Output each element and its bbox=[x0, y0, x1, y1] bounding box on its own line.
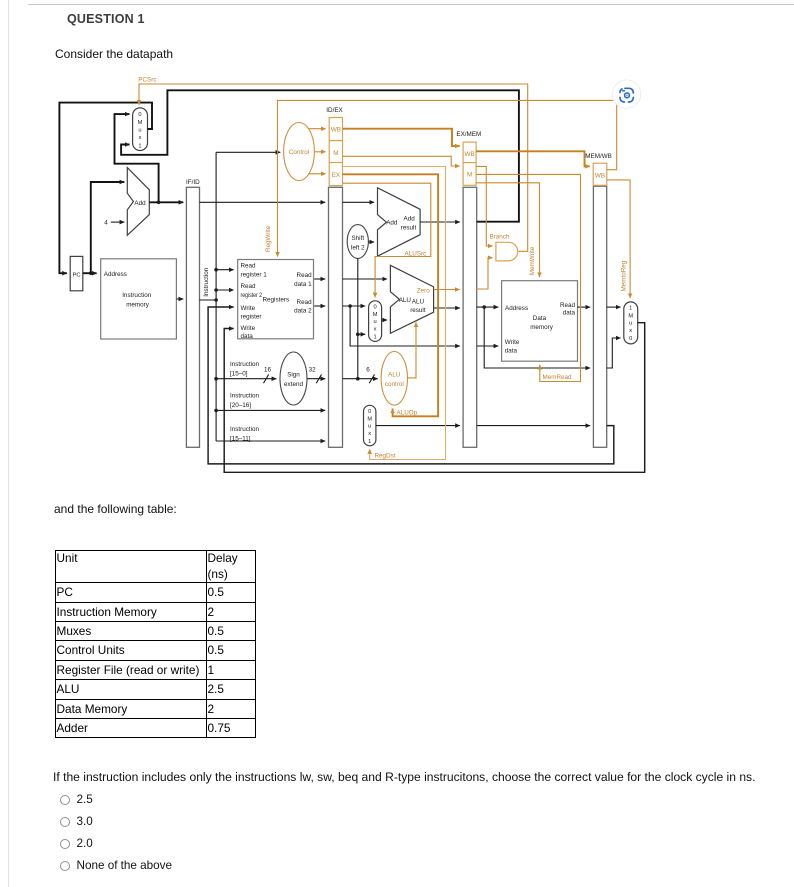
wire RegWrite signal bbox=[278, 100, 617, 256]
svg-text:WB: WB bbox=[465, 151, 475, 158]
wire constant 4 to Add bbox=[104, 220, 124, 227]
wire Control to ID/EX WB bbox=[309, 128, 326, 130]
svg-text:memory: memory bbox=[530, 324, 554, 331]
svg-text:32: 32 bbox=[309, 367, 317, 374]
wire sign extended up to shift left 2 bbox=[357, 258, 359, 378]
svg-text:Instruction: Instruction bbox=[203, 267, 210, 297]
wire PCSrc from branch AND gate to mux M1 bbox=[139, 84, 528, 251]
wire read data to MemtoReg mux input 1 bbox=[607, 306, 621, 308]
wire instruction to Control bbox=[216, 151, 280, 153]
pipeline register EX/MEM bbox=[456, 131, 481, 448]
DATAPATH DIAGRAM SVG bbox=[0, 0, 794, 500]
svg-text:Registers: Registers bbox=[263, 297, 290, 304]
shift left 2 unit bbox=[347, 225, 368, 259]
svg-text:Write: Write bbox=[505, 339, 520, 346]
wire memory read data to MEM/WB bbox=[578, 306, 591, 308]
svg-text:M: M bbox=[367, 416, 372, 422]
AND gate (branch) bbox=[490, 233, 518, 261]
svg-text:control: control bbox=[385, 381, 404, 388]
svg-text:EX: EX bbox=[332, 172, 341, 179]
svg-text:result: result bbox=[410, 307, 426, 314]
wire Control to ID/EX M bbox=[314, 151, 325, 153]
svg-text:M: M bbox=[467, 172, 472, 179]
svg-text:extend: extend bbox=[284, 381, 303, 388]
wire ALUOp signal bbox=[343, 174, 439, 416]
wire instruction [15-0] to sign extend bbox=[216, 378, 276, 380]
register file bbox=[238, 260, 314, 341]
svg-text:Write: Write bbox=[241, 325, 256, 332]
svg-text:RegDst: RegDst bbox=[375, 453, 396, 460]
wire ALU result bypass to MEM/WB bbox=[484, 307, 590, 368]
node PC out bbox=[89, 271, 93, 275]
svg-text:RegWrite: RegWrite bbox=[265, 225, 272, 252]
svg-text:x: x bbox=[374, 326, 377, 332]
svg-text:Read: Read bbox=[297, 272, 313, 279]
wire PC to instruction memory address bbox=[83, 272, 97, 274]
svg-text:6: 6 bbox=[366, 367, 370, 374]
svg-text:Address: Address bbox=[505, 305, 528, 312]
wire M chain ID/EX to EX/MEM bbox=[343, 156, 460, 166]
control box stack WB/M/EX on ID/EX bbox=[329, 118, 342, 186]
svg-text:Shift: Shift bbox=[351, 235, 364, 242]
wire RegDst mux to EX/MEM bbox=[376, 425, 460, 427]
wire Zero to AND gate bbox=[476, 258, 492, 289]
svg-text:Read: Read bbox=[560, 302, 576, 309]
wire instruction to read register 1 bbox=[216, 269, 234, 271]
node PC+4 bbox=[157, 201, 161, 205]
svg-text:x: x bbox=[629, 328, 632, 334]
sign extend unit bbox=[280, 352, 307, 405]
wire PC+4 ID/EX to Add result bbox=[343, 201, 375, 203]
svg-text:EX/MEM: EX/MEM bbox=[456, 131, 481, 138]
wire ALUSrc mux to ALU input 2 bbox=[382, 319, 387, 321]
control unit U1 bbox=[284, 123, 315, 181]
svg-text:Read: Read bbox=[297, 299, 313, 306]
node sign extended bbox=[356, 377, 360, 381]
mux RegDst bbox=[364, 405, 376, 446]
wire instruction [15-11] to ID/EX bbox=[216, 440, 325, 442]
wire store data to memory write data bbox=[477, 345, 499, 347]
pipeline register IF/ID bbox=[186, 179, 200, 448]
svg-text:MEM/WB: MEM/WB bbox=[585, 153, 612, 160]
wire instruction [20-16] to ID/EX bbox=[216, 409, 325, 411]
wire instruction to read register 2 bbox=[216, 289, 234, 291]
svg-text:memory: memory bbox=[126, 301, 150, 308]
wire sign extended to ALUSrc mux input 1 bbox=[358, 333, 365, 335]
wire read data 1 to ALU input 1 bbox=[343, 278, 388, 280]
control box WB on MEM/WB bbox=[593, 163, 607, 185]
svg-text:Write: Write bbox=[241, 305, 256, 312]
svg-text:Data: Data bbox=[533, 315, 547, 322]
instruction memory bbox=[101, 259, 177, 339]
screenshot button icon bbox=[612, 80, 640, 108]
node ALU result bbox=[482, 305, 486, 309]
wire ALU control to ALU bbox=[408, 322, 417, 378]
svg-text:data: data bbox=[563, 309, 576, 316]
svg-text:x: x bbox=[139, 135, 142, 141]
svg-text:data: data bbox=[505, 348, 518, 355]
svg-text:0: 0 bbox=[138, 112, 141, 118]
svg-text:Add: Add bbox=[134, 200, 146, 207]
svg-text:Instruction: Instruction bbox=[122, 292, 152, 299]
wire PC+4 IF/ID to ID/EX bbox=[200, 201, 326, 203]
wire PC to Add bbox=[91, 182, 125, 273]
svg-text:1: 1 bbox=[368, 439, 371, 445]
wire write register number EX/MEM to MEM/WB bbox=[477, 425, 590, 427]
svg-text:0: 0 bbox=[374, 304, 377, 310]
svg-text:Control: Control bbox=[289, 149, 309, 156]
mux MemtoReg bbox=[624, 302, 638, 344]
svg-text:ID/EX: ID/EX bbox=[326, 107, 343, 114]
svg-text:Add: Add bbox=[386, 220, 398, 227]
svg-text:data 2: data 2 bbox=[294, 307, 312, 314]
wire shift left 2 to Add result bbox=[368, 241, 374, 243]
svg-text:Zero: Zero bbox=[417, 288, 430, 295]
svg-text:register 2: register 2 bbox=[241, 292, 263, 299]
svg-text:16: 16 bbox=[264, 367, 272, 374]
svg-text:Add: Add bbox=[404, 216, 416, 223]
svg-text:1: 1 bbox=[374, 335, 377, 341]
mux M1 (PCSrc mux) bbox=[133, 108, 148, 151]
node instruction taps bbox=[214, 268, 218, 272]
adder Add (PC+4) bbox=[127, 168, 149, 236]
svg-text:PC: PC bbox=[73, 272, 81, 278]
wire MemWrite signal bbox=[476, 183, 539, 277]
svg-text:WB: WB bbox=[595, 173, 605, 180]
wire read data 2 to ID/EX bbox=[314, 305, 325, 307]
svg-text:data 1: data 1 bbox=[294, 281, 312, 288]
svg-text:Sign: Sign bbox=[287, 372, 300, 379]
svg-text:u: u bbox=[138, 128, 141, 134]
wire MemRead signal bbox=[476, 174, 580, 381]
svg-text:x: x bbox=[368, 431, 371, 437]
svg-text:ALU: ALU bbox=[399, 297, 412, 304]
wire Zero to EX/MEM bbox=[434, 289, 460, 291]
wire ALU result to EX/MEM bbox=[434, 307, 460, 309]
wire RegDst signal bbox=[343, 167, 446, 460]
node read data 2 bbox=[348, 304, 352, 308]
wire WB chain ID/EX to EX/MEM bbox=[343, 129, 460, 146]
svg-text:ALUSrc: ALUSrc bbox=[405, 250, 427, 257]
svg-text:data: data bbox=[241, 333, 254, 340]
svg-text:1: 1 bbox=[138, 144, 141, 150]
svg-text:IF/ID: IF/ID bbox=[186, 179, 200, 186]
wire ALUSrc signal bbox=[343, 183, 431, 297]
pipeline register MEM/WB bbox=[585, 153, 612, 448]
svg-text:Read: Read bbox=[241, 263, 257, 270]
svg-text:register 1: register 1 bbox=[241, 271, 268, 278]
wire sign extended to ALU control bbox=[343, 378, 378, 380]
svg-text:Branch: Branch bbox=[490, 233, 510, 240]
wire Branch signal to AND gate bbox=[476, 166, 492, 246]
svg-text:1: 1 bbox=[629, 306, 632, 312]
svg-text:M: M bbox=[373, 312, 378, 318]
wire read data 1 to ID/EX bbox=[314, 278, 325, 280]
svg-text:WB: WB bbox=[331, 127, 341, 134]
svg-text:left 2: left 2 bbox=[351, 244, 365, 251]
ALU bbox=[390, 265, 433, 333]
wire sign extend to ID/EX bbox=[307, 378, 325, 380]
pipeline register ID/EX bbox=[326, 107, 343, 448]
adder Add result (branch target) bbox=[378, 188, 421, 256]
svg-text:Read: Read bbox=[241, 283, 257, 290]
svg-text:u: u bbox=[368, 424, 371, 430]
svg-text:Address: Address bbox=[104, 271, 127, 278]
wire PC+4 to mux M1 input 0 bbox=[115, 114, 159, 202]
wire bypass to MemtoReg mux input 0 bbox=[607, 338, 621, 368]
svg-text:u: u bbox=[629, 321, 632, 327]
PC register bbox=[70, 256, 83, 290]
svg-text:u: u bbox=[374, 319, 377, 325]
svg-text:0: 0 bbox=[368, 409, 371, 415]
ALU control unit bbox=[381, 352, 407, 406]
control box stack WB/M on EX/MEM bbox=[463, 142, 476, 185]
wire instruction memory to IF/ID bbox=[176, 298, 183, 300]
wire MemtoReg mux output back to write data bbox=[224, 323, 645, 473]
wire WB chain EX/MEM to MEM/WB bbox=[476, 151, 590, 166]
svg-text:4: 4 bbox=[104, 220, 108, 227]
svg-text:PCSrc: PCSrc bbox=[138, 77, 156, 84]
wire Add to IF/ID (PC+4) bbox=[149, 201, 183, 203]
wire ALU result to memory address bbox=[477, 306, 499, 308]
svg-text:register: register bbox=[241, 314, 262, 321]
svg-text:ALU: ALU bbox=[388, 372, 401, 379]
svg-text:M: M bbox=[138, 120, 143, 126]
wire read data 2 to ALUSrc mux input 0 bbox=[343, 305, 366, 307]
svg-text:result: result bbox=[401, 225, 417, 232]
svg-text:0: 0 bbox=[629, 336, 632, 342]
wire mux M1 to PC bbox=[59, 103, 152, 274]
svg-text:Instruction: Instruction bbox=[230, 426, 260, 433]
svg-text:[15–0]: [15–0] bbox=[230, 371, 248, 378]
data memory bbox=[502, 281, 578, 362]
svg-text:ALUOp: ALUOp bbox=[397, 409, 418, 416]
svg-text:[15–11]: [15–11] bbox=[230, 436, 251, 443]
svg-text:M: M bbox=[333, 150, 338, 157]
wire Control to ID/EX EX bbox=[309, 173, 326, 175]
wire store data to EX/MEM bbox=[350, 306, 460, 346]
svg-text:MemtoReg: MemtoReg bbox=[620, 260, 627, 291]
svg-text:ALU: ALU bbox=[412, 299, 425, 306]
node mux input 1 tap bbox=[356, 333, 360, 337]
svg-text:MemWrite: MemWrite bbox=[529, 246, 536, 275]
wire branch target through EX/MEM back to mux M1 input 1 bbox=[420, 221, 460, 223]
svg-text:Instruction: Instruction bbox=[230, 393, 260, 400]
svg-text:M: M bbox=[628, 313, 633, 319]
wire MemtoReg signal bbox=[607, 180, 630, 298]
svg-text:MemRead: MemRead bbox=[543, 374, 573, 381]
wire instruction bus bbox=[200, 152, 217, 441]
svg-text:[20–16]: [20–16] bbox=[230, 402, 251, 409]
svg-text:Instruction: Instruction bbox=[230, 361, 260, 368]
wire write register number back to register file bbox=[208, 307, 614, 464]
mux ALUSrc bbox=[369, 301, 382, 342]
